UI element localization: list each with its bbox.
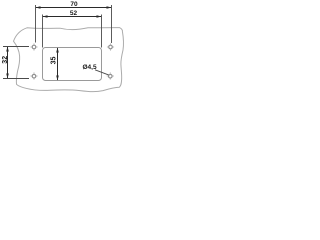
hole bottom-left crosshair ticks xyxy=(30,72,37,79)
dimension 32: extension line bottom xyxy=(3,78,29,80)
hole bottom-left xyxy=(32,74,36,78)
dimension 70: text label xyxy=(70,1,78,8)
dimension 35: dimension line with arrows xyxy=(56,48,59,81)
dimension 52: extension line left xyxy=(42,15,44,48)
hole bottom-right xyxy=(109,74,113,78)
dimension 70: dimension line with arrows xyxy=(36,6,112,9)
dimension 32: dimension line with arrows xyxy=(6,47,9,79)
hole bottom-right crosshair ticks xyxy=(107,72,114,79)
leader line from label to bottom-right hole xyxy=(95,70,109,75)
dimension 70: extension line right xyxy=(111,5,113,43)
svg-text:70: 70 xyxy=(70,1,78,8)
hole top-left crosshair ticks xyxy=(30,43,37,50)
dimension 52: extension line right xyxy=(101,15,103,48)
svg-text:52: 52 xyxy=(70,10,78,17)
dimension 52: dimension line with arrows xyxy=(43,15,102,18)
dimension 35: text label xyxy=(50,57,57,65)
dimension 32: extension line top xyxy=(3,46,29,48)
hole top-right crosshair ticks xyxy=(107,43,114,50)
hole diameter label Ø4,5 xyxy=(83,64,97,71)
hole top-right xyxy=(109,45,113,49)
svg-text:32: 32 xyxy=(2,56,9,64)
svg-text:Ø4,5: Ø4,5 xyxy=(83,64,97,71)
dimension 52: text label xyxy=(70,10,78,17)
dimension 70: extension line left xyxy=(35,5,37,43)
panel outline (broken-edge plate) xyxy=(14,28,124,92)
cutout rectangle (rounded corners) xyxy=(43,48,102,81)
dimension 32: text label xyxy=(2,56,9,64)
hole top-left xyxy=(32,45,36,49)
svg-text:35: 35 xyxy=(50,57,57,65)
